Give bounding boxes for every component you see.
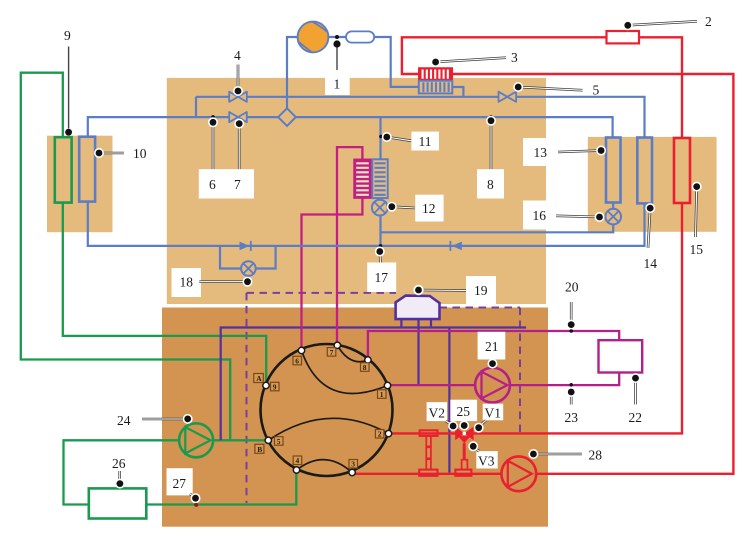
port 1 node	[384, 382, 390, 388]
dashed boundary right vertical	[519, 308, 521, 434]
label 3	[431, 50, 518, 67]
wire red from 15 bottom down and left to port 2	[389, 203, 683, 433]
evaporator 12 magenta side	[354, 159, 371, 198]
label 28	[528, 446, 609, 463]
dashed boundary top-right horizontal	[440, 307, 521, 309]
label 14	[633, 203, 664, 277]
svg-text:1: 1	[334, 77, 341, 92]
fan 16 circle-X	[605, 209, 621, 225]
svg-text:6: 6	[295, 357, 299, 366]
node junction on evaporator feed at label 11	[379, 135, 383, 139]
label 19	[413, 276, 496, 304]
svg-text:8: 8	[363, 363, 367, 372]
port label B	[255, 444, 264, 454]
label 20	[557, 277, 589, 333]
port B node	[265, 437, 271, 443]
label 5	[513, 77, 609, 97]
valve 5	[499, 92, 517, 102]
svg-text:3: 3	[511, 50, 518, 65]
ground zone lower (dark tan block, storage volume)	[162, 308, 548, 527]
port label 8	[361, 363, 370, 372]
svg-text:1: 1	[380, 390, 384, 399]
port label 3	[349, 460, 358, 469]
wire blue evaporator feed from line B	[379, 117, 381, 159]
svg-text:11: 11	[419, 134, 432, 149]
port label 2	[375, 430, 384, 439]
svg-text:19: 19	[474, 283, 488, 298]
label 26	[112, 456, 126, 489]
label 16	[523, 201, 605, 230]
svg-text:2: 2	[705, 14, 712, 29]
svg-text:4: 4	[234, 48, 241, 63]
label 10	[94, 141, 158, 166]
wire indigo drop to red line	[448, 328, 450, 473]
svg-text:4: 4	[296, 456, 300, 465]
svg-text:10: 10	[133, 146, 147, 161]
svg-text:9: 9	[273, 383, 277, 392]
ground zone left (tan block around borehole 9/10)	[47, 136, 113, 233]
valve V3 stem and flange	[455, 443, 471, 476]
heat exchanger 14	[637, 138, 652, 204]
label 21	[478, 332, 506, 369]
rotary multiport valve body	[261, 344, 393, 476]
svg-text:26: 26	[112, 456, 126, 471]
label 18	[172, 268, 253, 297]
svg-text:5: 5	[593, 83, 600, 98]
wire blue compressor discharge to muffler	[328, 36, 346, 38]
rotary valve internal passage B-2	[268, 418, 388, 440]
svg-text:3: 3	[351, 460, 355, 469]
svg-text:15: 15	[690, 242, 704, 257]
wire blue line B from 10 top to 13 top	[88, 117, 613, 137]
label 6 and 7	[199, 117, 254, 198]
rotary valve internal passage 6-1	[302, 351, 388, 394]
expansion device 12 circle-X	[372, 200, 388, 216]
svg-text:25: 25	[457, 404, 471, 419]
borehole heat exchanger 9	[55, 137, 72, 202]
svg-text:5: 5	[277, 437, 281, 446]
wire blue 13 bottom through 16 to line C prime	[381, 203, 614, 233]
svg-text:13: 13	[534, 145, 548, 160]
label 13	[523, 138, 606, 166]
svg-text:22: 22	[629, 410, 643, 425]
label 2	[623, 14, 712, 30]
compressor 1	[298, 22, 329, 53]
svg-text:18: 18	[180, 275, 194, 290]
svg-text:23: 23	[565, 410, 579, 425]
dashed boundary top-left horizontal	[247, 292, 397, 294]
node junction on line B at label 8	[489, 115, 493, 119]
label 22	[622, 373, 651, 428]
svg-text:V3: V3	[478, 454, 495, 469]
label 24	[108, 408, 193, 432]
fan coil 18 circle-X	[241, 261, 256, 276]
wire blue 12 drain to line C	[379, 198, 381, 246]
label 12	[387, 195, 444, 222]
wire magenta port 8 to tank 22 top	[368, 331, 619, 360]
svg-text:V1: V1	[485, 406, 502, 421]
heat exchanger 26	[89, 488, 147, 518]
svg-text:2: 2	[378, 430, 382, 439]
label 23	[557, 387, 586, 429]
label 17	[367, 247, 396, 293]
component 2 (liquid receiver)	[607, 31, 640, 43]
heat exchanger 13	[606, 138, 621, 203]
port 3 node	[349, 469, 355, 475]
label V3	[468, 441, 497, 468]
label 1	[325, 40, 350, 95]
wire green from borehole 9 bottom to port A	[63, 203, 266, 382]
wire blue line C from 10 bottom to 14 bottom	[88, 202, 645, 246]
valve 7	[229, 112, 247, 122]
svg-text:28: 28	[589, 448, 603, 463]
label 27	[167, 468, 201, 507]
muffler capsule	[346, 31, 374, 42]
heat exchanger 15	[674, 138, 690, 203]
fitting T upper on port-2 line	[420, 430, 438, 436]
svg-text:21: 21	[485, 339, 499, 354]
svg-text:V2: V2	[429, 406, 446, 421]
label 25	[450, 400, 477, 431]
port 8 node	[365, 357, 371, 363]
svg-text:24: 24	[117, 413, 131, 428]
port 7 node	[334, 342, 340, 348]
svg-text:7: 7	[330, 348, 334, 357]
wire red return loop from HX3 right via right side to port 3	[353, 74, 734, 474]
fitting T lower on port-3 line	[419, 470, 437, 476]
wire red discharge loop from HX3 left via component 2 down to port 2 line	[402, 37, 682, 138]
label 15	[686, 182, 712, 261]
port label 1	[378, 390, 387, 399]
ground zone upper (light tan block center)	[167, 78, 546, 304]
port label 4	[293, 456, 302, 465]
port A node	[263, 382, 269, 388]
svg-text:17: 17	[375, 270, 389, 285]
pump 24	[179, 423, 213, 457]
ground zone right (tan block around 13/14/15)	[588, 137, 717, 232]
rotary valve internal passage 4-3	[297, 460, 353, 473]
port label A	[254, 374, 263, 384]
label 4	[227, 44, 249, 97]
wire magenta condenser bottom to port 6	[302, 198, 363, 351]
pump 21	[475, 368, 510, 403]
wire green from 26 to port 4	[146, 473, 296, 505]
svg-text:7: 7	[234, 177, 241, 192]
dashed boundary left vertical	[246, 293, 248, 503]
wire blue muffler to HX3	[374, 37, 419, 87]
heat exchanger 3 blue side	[419, 81, 453, 94]
label 8	[477, 116, 504, 199]
evaporator 12 blue side	[372, 159, 387, 198]
port label 6	[293, 356, 302, 365]
port 4 node	[293, 467, 299, 473]
svg-text:B: B	[257, 445, 262, 454]
label V2	[427, 402, 459, 431]
valve 4	[229, 92, 247, 102]
filter drier diamond	[278, 108, 296, 126]
port label 9	[271, 382, 280, 391]
node junction on line B at label 6	[211, 115, 215, 119]
wire green loop from borehole 9 top to node B junction	[21, 73, 230, 441]
wire blue bypass loop of 18	[220, 246, 276, 269]
svg-text:12: 12	[422, 201, 436, 216]
port label 5	[275, 437, 284, 446]
svg-text:14: 14	[644, 256, 658, 271]
wire magenta condenser top loop to port 7	[337, 147, 362, 346]
svg-text:27: 27	[173, 476, 187, 491]
port 6 node	[298, 347, 304, 353]
svg-text:6: 6	[209, 177, 216, 192]
port 2 node	[385, 430, 391, 436]
svg-text:20: 20	[565, 280, 579, 295]
node junction on line C at label 17	[379, 244, 383, 248]
wire blue connector line A to line B	[195, 97, 197, 117]
wire blue HX3 outlet down to line A	[452, 87, 463, 97]
wire indigo right leg of 19	[430, 319, 432, 328]
fitting stem between red lines	[426, 436, 431, 469]
node junction on discharge line at label 1	[335, 35, 339, 39]
port label 7	[327, 348, 336, 357]
wire green pump-24 suction/discharge line to port B	[64, 440, 269, 504]
svg-text:8: 8	[487, 177, 494, 192]
tank 22	[599, 340, 643, 372]
wire indigo left leg of 19	[400, 319, 402, 328]
node junction on pump line at label 23	[569, 383, 573, 387]
wire indigo centre leg of 19 to magenta line	[417, 319, 419, 385]
wire indigo header from green line to boundary	[221, 328, 526, 441]
wire blue compressor suction to diamond	[287, 37, 298, 109]
wire blue line A with valves 4 and 5 to 14 top	[196, 97, 645, 138]
rotary valve internal passage 7-8	[337, 345, 368, 361]
heat exchanger 3 red side	[419, 68, 453, 80]
label 9	[54, 22, 82, 136]
svg-text:9: 9	[64, 28, 71, 43]
label V1	[474, 404, 504, 433]
check valve left-flow on line C	[450, 241, 461, 251]
check valve right-flow on line C	[240, 241, 251, 251]
expansion vessel 19	[396, 296, 440, 320]
valve 25 three-way V1 V2	[455, 427, 473, 444]
borehole heat exchanger 10	[79, 137, 95, 202]
wire magenta port 1 through pump 21 to tank 22 bottom	[388, 373, 620, 386]
pump 28	[501, 456, 536, 491]
svg-text:A: A	[256, 374, 262, 383]
svg-text:16: 16	[533, 208, 547, 223]
label 11	[382, 132, 439, 151]
